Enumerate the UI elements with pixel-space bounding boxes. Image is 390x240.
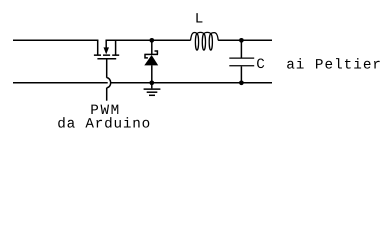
svg-text:L: L	[195, 12, 205, 28]
svg-text:C: C	[256, 57, 266, 73]
svg-text:ai Peltier: ai Peltier	[286, 58, 382, 74]
svg-text:da Arduino: da Arduino	[57, 116, 151, 132]
